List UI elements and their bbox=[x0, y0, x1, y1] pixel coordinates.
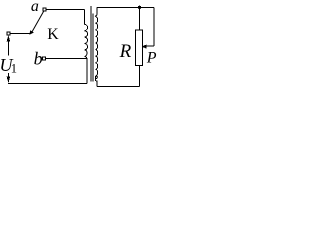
slider arrowhead P bbox=[141, 45, 146, 49]
right edge vertical to slider bbox=[153, 7, 155, 46]
svg-text:P: P bbox=[146, 49, 157, 66]
svg-text:a: a bbox=[31, 0, 39, 15]
wire dot to resistor top bbox=[139, 7, 141, 30]
transformer core line left bbox=[90, 6, 92, 82]
resistor R body bbox=[135, 30, 142, 65]
svg-text:R: R bbox=[119, 41, 132, 62]
wire a to transformer primary top bbox=[46, 9, 84, 11]
transformer primary feed down bbox=[83, 10, 85, 25]
transformer secondary top feed bbox=[95, 7, 97, 16]
voltage arrow U1 lower segment bbox=[7, 73, 9, 80]
pivot terminal bbox=[7, 32, 10, 35]
svg-text:K: K bbox=[47, 26, 59, 43]
wire pivot to blade bbox=[10, 32, 30, 34]
transformer primary winding bbox=[84, 24, 87, 58]
switch K blade arrowhead bbox=[29, 30, 34, 35]
svg-text:1: 1 bbox=[11, 62, 17, 76]
secondary top wire bbox=[97, 6, 154, 8]
voltage arrow U1 up arrowhead bbox=[7, 35, 10, 41]
slider arrow shaft bbox=[146, 45, 154, 47]
wire b to transformer primary bottom bbox=[46, 58, 87, 60]
bottom-left rail bbox=[8, 82, 87, 84]
transformer secondary bottom exit bbox=[95, 76, 97, 86]
transformer core line right bbox=[92, 14, 94, 82]
junction dot bbox=[138, 6, 141, 9]
wire resistor bottom to rail bbox=[139, 65, 141, 86]
node b terminal bbox=[43, 57, 46, 60]
voltage arrow U1 upper segment bbox=[7, 39, 9, 56]
voltage arrow U1 down arrowhead bbox=[7, 77, 10, 83]
transformer secondary winding bbox=[95, 17, 97, 80]
bottom-right rail bbox=[97, 85, 140, 87]
transformer primary bottom feed bbox=[86, 58, 88, 83]
switch K blade bbox=[32, 11, 44, 32]
node a terminal bbox=[43, 8, 46, 11]
svg-text:b: b bbox=[34, 48, 43, 68]
